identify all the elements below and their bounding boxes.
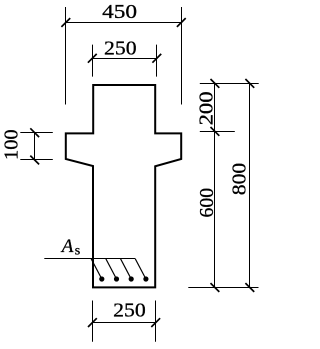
dimension 100 left group [20,128,53,164]
extension line bottom right [188,287,258,289]
extension line right of 450 [181,7,183,105]
tick 200 top [211,79,220,88]
dim line 100 [34,133,36,160]
dimension 250 top group [88,45,161,77]
rebar dot 2 [114,276,119,281]
tick left 250 top [88,54,97,63]
extension line bottom of 100 [20,159,53,161]
svg-text:450: 450 [102,1,137,23]
extension line right of 250 bottom [155,301,157,342]
tick right 250 top [152,54,161,63]
tick right 450 [177,18,186,27]
extension line top of 100 [20,132,53,134]
rebar dot 4 [143,276,148,281]
dim line 800 [249,84,251,288]
dimension 250 bottom group [88,301,160,342]
svg-text:100: 100 [0,129,22,160]
dimension 450 group [61,7,185,105]
rebar dot 3 [129,276,134,281]
tick bottom 100 [30,156,39,165]
svg-text:250: 250 [104,38,137,60]
svg-text:250: 250 [113,300,146,322]
extension line left of 250 top [92,45,94,77]
column outline (haunched column section) [66,85,181,287]
dim line 200-600 [214,84,216,288]
tick top 100 [30,128,39,137]
dim line 250 top [93,58,157,60]
rebar hook 4 [135,259,146,279]
extension line top right [200,83,259,85]
rebar hook 2 [106,259,117,279]
tick 600 bottom [211,283,220,292]
extension line mid right [200,131,235,133]
tick 800 top [245,79,254,88]
right side dimensions 200 600 800 [188,79,258,292]
tick 200 bottom / 600 top [211,127,220,136]
svg-text:200: 200 [195,91,217,125]
tick right 250 bottom [151,318,160,327]
rebar hook 3 [121,259,132,279]
rebar hook 1 [91,259,102,279]
extension line left of 450 [65,7,67,105]
svg-text:800: 800 [229,163,251,196]
tick 800 bottom [245,283,254,292]
dim line 450 [66,22,182,24]
extension line right of 250 top [156,45,158,77]
rebar dot 1 [99,276,104,281]
tick left 250 bottom [88,318,97,327]
leader line As [44,258,135,260]
tick left 450 [61,18,70,27]
extension line left of 250 bottom [92,301,94,342]
svg-text:600: 600 [196,188,218,218]
dim line 250 bottom [93,322,156,324]
